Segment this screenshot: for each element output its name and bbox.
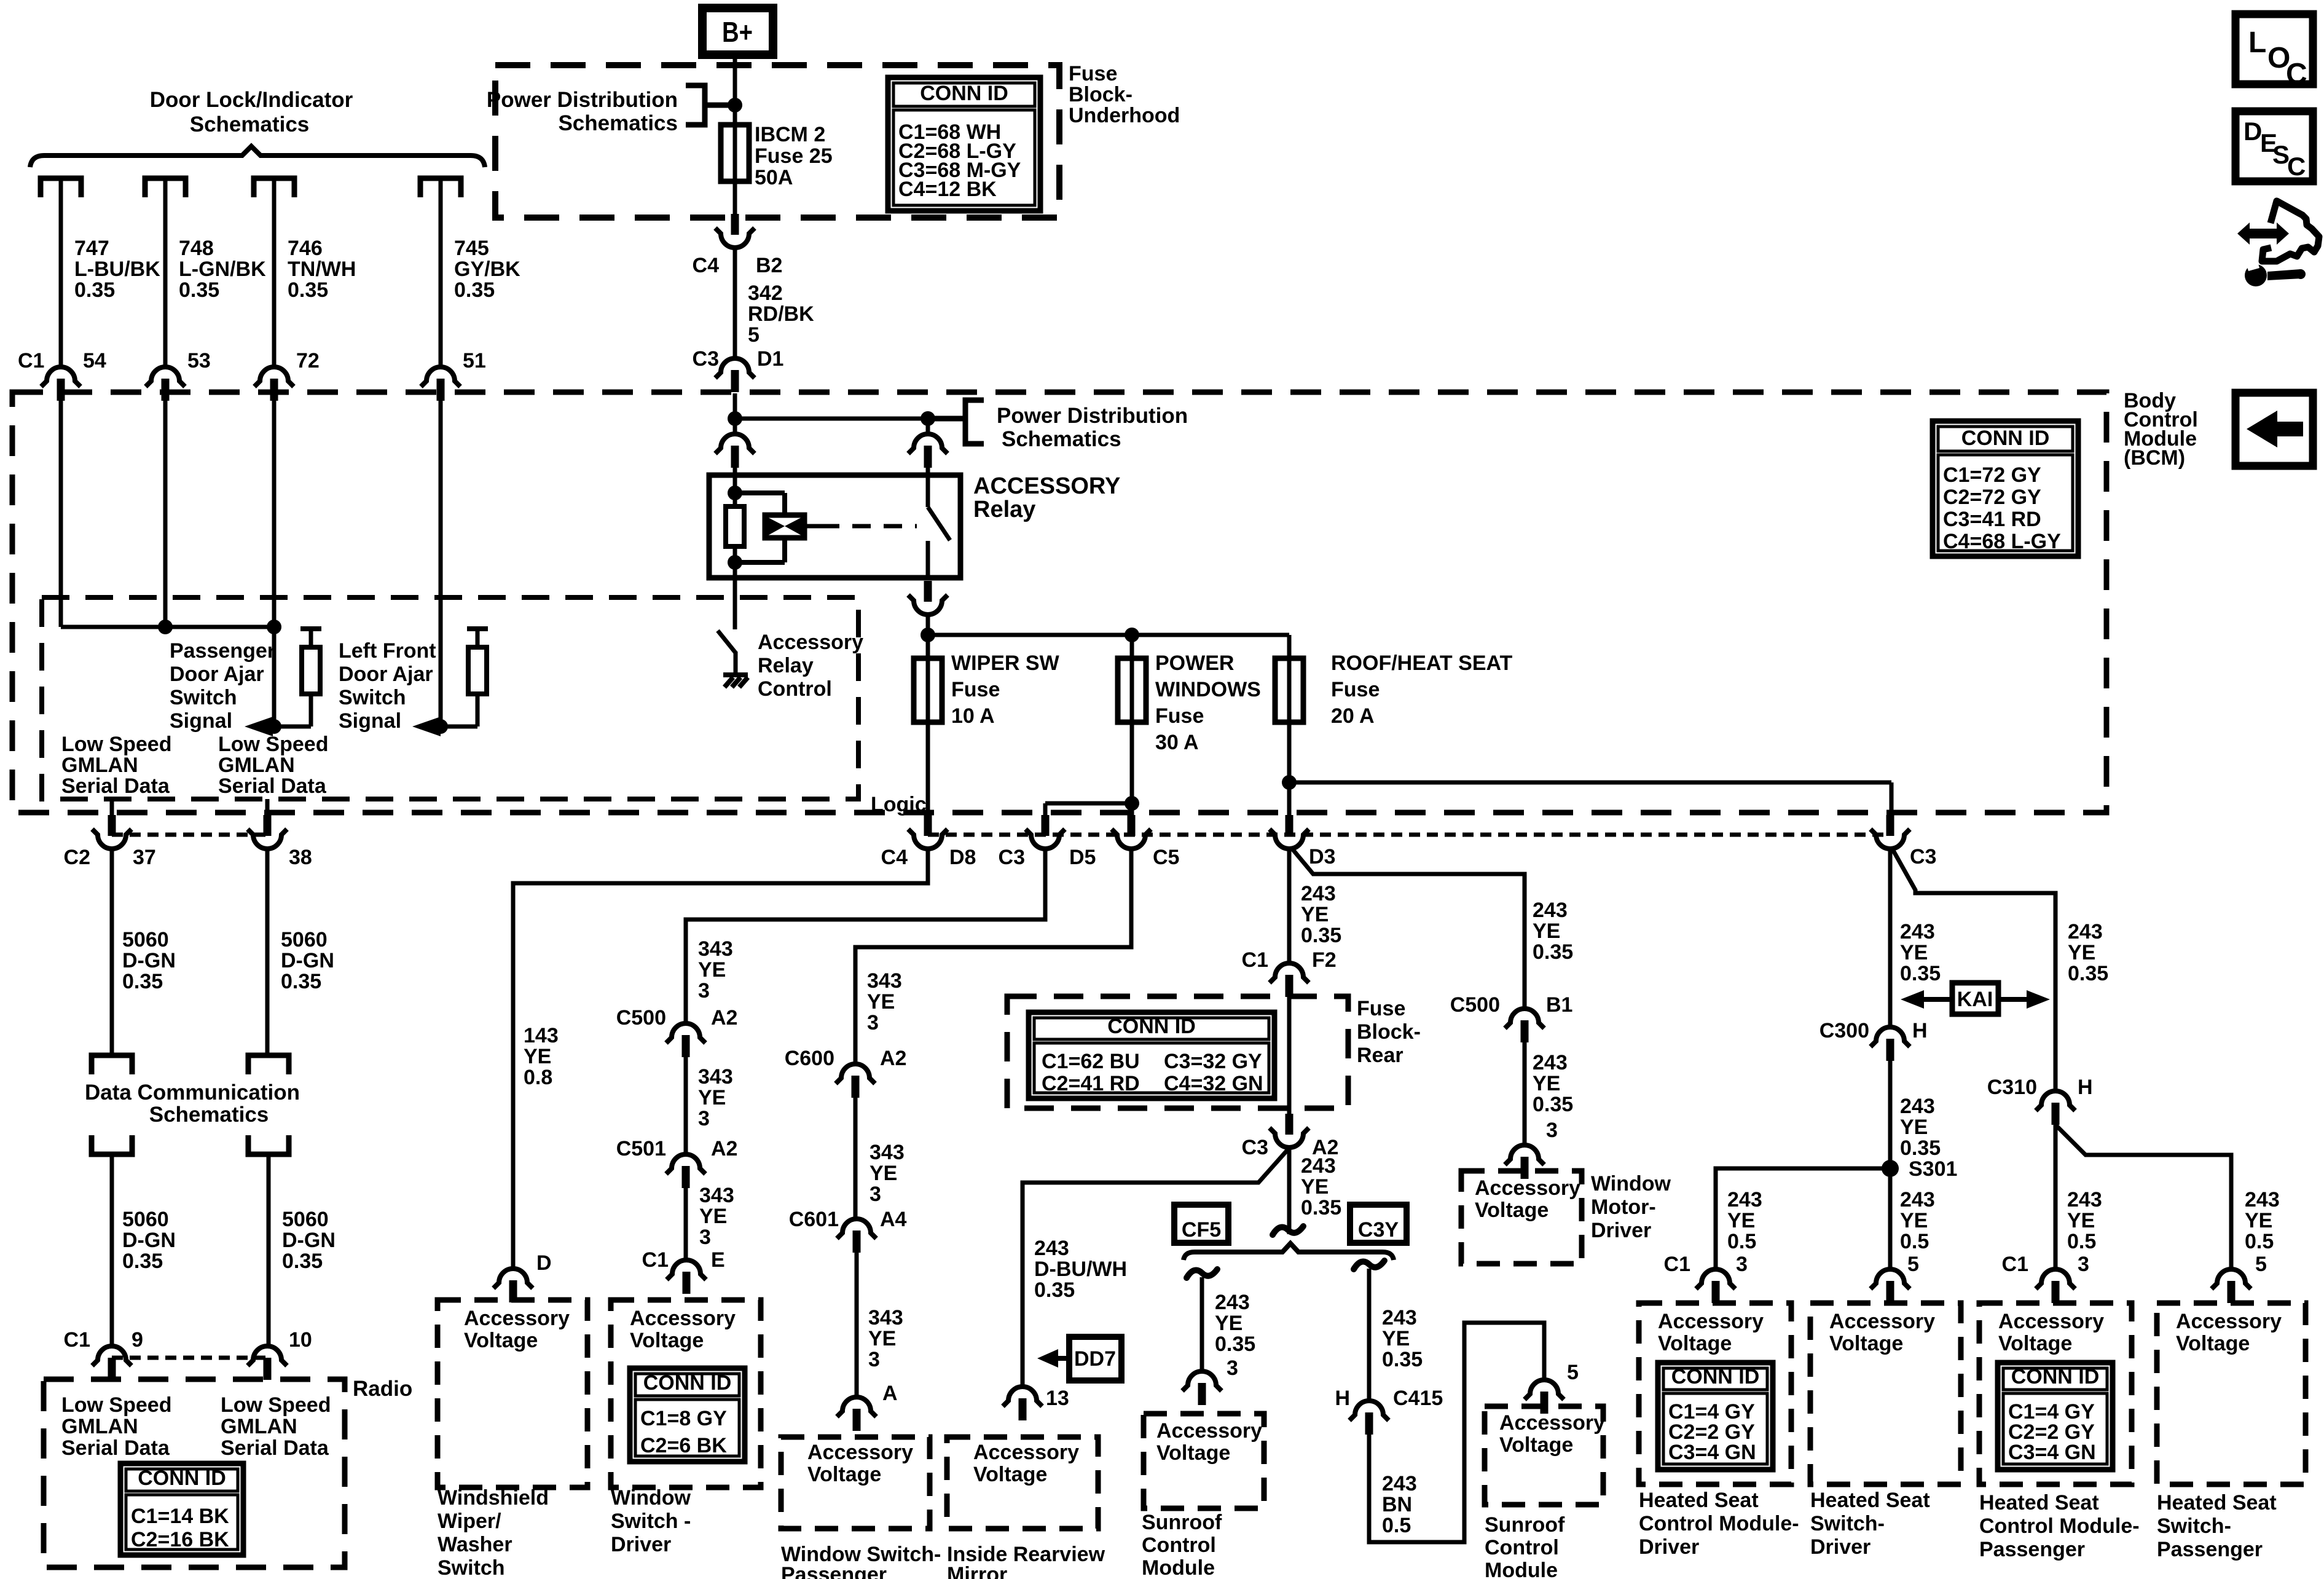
svg-text:C3: C3 — [1910, 845, 1936, 868]
svg-text:5: 5 — [748, 323, 760, 347]
svg-text:Low Speed: Low Speed — [61, 1393, 171, 1417]
relay switch supply connector — [908, 434, 948, 468]
svg-text:C5: C5 — [1153, 846, 1179, 869]
svg-text:Switch-: Switch- — [2157, 1514, 2231, 1538]
svg-text:YE: YE — [1900, 1116, 1928, 1139]
connector C3 A2 (exit fuse block rear) — [1270, 1114, 1309, 1148]
svg-text:C501: C501 — [616, 1137, 666, 1160]
svg-text:A2: A2 — [711, 1006, 737, 1030]
wire roof fuse bus to C3 — [1282, 775, 1297, 790]
svg-text:Washer: Washer — [438, 1533, 512, 1556]
svg-text:10: 10 — [289, 1328, 312, 1352]
svg-text:Heated Seat: Heated Seat — [1810, 1489, 1930, 1512]
svg-text:3: 3 — [1546, 1119, 1558, 1142]
BCM pin C5 exit — [1112, 815, 1151, 849]
CONN ID table BCM — [1933, 421, 2078, 556]
splice S301 — [1882, 1160, 1899, 1177]
wire 747 L-BU/BK — [59, 181, 63, 366]
svg-text:D-GN: D-GN — [122, 1229, 176, 1252]
svg-text:Power Distribution: Power Distribution — [997, 404, 1188, 428]
off-page pad 37 (data comm) bottom — [92, 1135, 132, 1154]
svg-text:Control: Control — [1142, 1534, 1216, 1557]
svg-text:WIPER SW: WIPER SW — [951, 652, 1060, 675]
svg-text:Motor-: Motor- — [1591, 1195, 1656, 1219]
svg-text:C3Y: C3Y — [1358, 1218, 1399, 1242]
svg-text:3: 3 — [1736, 1253, 1748, 1276]
BCM connector C1 pin 53 — [146, 367, 185, 401]
svg-text:53: 53 — [187, 349, 211, 372]
svg-text:0.35: 0.35 — [1900, 1136, 1941, 1160]
svg-text:Control: Control — [758, 677, 832, 701]
svg-text:Door Ajar: Door Ajar — [339, 663, 433, 686]
svg-text:D5: D5 — [1069, 846, 1096, 869]
svg-text:A: A — [882, 1382, 898, 1405]
battery B+ symbol — [702, 8, 773, 55]
svg-text:C600: C600 — [785, 1047, 834, 1070]
svg-text:10 A: 10 A — [951, 704, 995, 728]
BCM pin 37 exit — [110, 799, 114, 817]
wire C4 pin D1 into BCM — [733, 393, 737, 419]
icon arrow-wrench (schematic reference) — [2237, 201, 2319, 286]
connector C1 3 heated seat control module passenger — [2036, 1269, 2075, 1303]
svg-text:Sunroof: Sunroof — [1142, 1511, 1222, 1534]
svg-text:Voltage: Voltage — [807, 1463, 881, 1486]
wire through fuse block rear — [1287, 997, 1292, 1114]
door-lock pad 1 — [41, 178, 81, 197]
svg-text:CONN ID: CONN ID — [1961, 427, 2050, 450]
svg-text:YE: YE — [867, 990, 895, 1014]
svg-text:WINDOWS: WINDOWS — [1155, 678, 1261, 701]
wire 745 GY/BK — [439, 181, 443, 366]
svg-text:A2: A2 — [711, 1137, 737, 1160]
svg-text:Heated Seat: Heated Seat — [1979, 1491, 2099, 1514]
BCM connector C1 pin 72 — [254, 367, 294, 401]
ROOF/HEAT SEAT Fuse 20 A — [1287, 635, 1292, 661]
bracket Power Distribution Schematics (BCM) — [928, 416, 965, 422]
svg-text:Low Speed: Low Speed — [61, 733, 171, 756]
svg-text:Fuse: Fuse — [1357, 997, 1405, 1020]
BCM connector C1 pin 54 — [41, 367, 80, 401]
passenger door ajar signal arrow — [274, 725, 311, 729]
svg-text:D3: D3 — [1309, 845, 1335, 868]
svg-text:GMLAN: GMLAN — [221, 1415, 297, 1438]
svg-text:GMLAN: GMLAN — [61, 754, 138, 777]
svg-text:38: 38 — [289, 846, 312, 869]
icon back-arrow box — [2236, 393, 2313, 466]
svg-text:C3=4 GN: C3=4 GN — [1668, 1441, 1756, 1464]
svg-text:5060: 5060 — [282, 1208, 329, 1231]
wire B+ to fuse — [733, 55, 737, 127]
svg-text:C3: C3 — [693, 347, 719, 371]
brace door-lock group — [30, 146, 485, 167]
svg-text:343: 343 — [868, 1306, 903, 1329]
BCM pin 38 exit — [265, 799, 270, 817]
svg-text:3: 3 — [699, 1226, 711, 1249]
wiper fuse feed bus — [921, 628, 935, 642]
svg-text:YE: YE — [1900, 1209, 1928, 1232]
svg-text:DD7: DD7 — [1074, 1347, 1116, 1371]
svg-text:243: 243 — [1727, 1188, 1762, 1211]
svg-text:243: 243 — [1900, 1188, 1935, 1211]
svg-text:C1: C1 — [642, 1248, 669, 1272]
svg-text:747: 747 — [74, 237, 109, 260]
svg-text:D-GN: D-GN — [122, 949, 176, 972]
svg-text:YE: YE — [1727, 1209, 1755, 1232]
svg-text:0.35: 0.35 — [122, 1250, 163, 1273]
svg-text:343: 343 — [698, 937, 733, 961]
svg-text:Switch: Switch — [170, 686, 237, 709]
svg-text:Accessory: Accessory — [1475, 1176, 1580, 1200]
svg-text:Module: Module — [1142, 1556, 1215, 1579]
svg-text:H: H — [2078, 1076, 2093, 1099]
CONN ID table Fuse Block-Rear — [1029, 1012, 1274, 1098]
relay coil supply connector — [715, 434, 755, 468]
svg-text:Signal: Signal — [339, 709, 401, 733]
svg-text:Door Lock/Indicator: Door Lock/Indicator — [150, 88, 353, 112]
wire 38 to radio — [265, 850, 270, 1055]
svg-text:C2=6 BK: C2=6 BK — [640, 1434, 727, 1457]
svg-text:0.5: 0.5 — [1727, 1230, 1756, 1253]
svg-text:A4: A4 — [880, 1208, 907, 1231]
off-page pad 38 (data comm) bottom — [248, 1135, 289, 1154]
junction node at B+ branch — [728, 98, 742, 112]
svg-text:H: H — [1335, 1387, 1350, 1410]
svg-text:L-BU/BK: L-BU/BK — [74, 258, 160, 281]
svg-text:Driver: Driver — [1591, 1219, 1651, 1242]
BCM pin C3 exit (right) — [1871, 815, 1910, 849]
svg-text:Window: Window — [611, 1486, 691, 1510]
svg-text:Switch: Switch — [438, 1556, 505, 1579]
svg-text:Schematics: Schematics — [558, 111, 678, 135]
wire pin 53 drop — [163, 401, 168, 627]
svg-text:YE: YE — [1900, 941, 1928, 964]
wire 243 YE 0.5 to heated seat switch driver — [1888, 1168, 1893, 1268]
BCM connector C1 pin 51 — [421, 367, 460, 401]
wire 243 YE 0.35 (below A2) — [1287, 1149, 1292, 1234]
left front door ajar signal arrow — [441, 725, 477, 729]
svg-text:Fuse: Fuse — [1155, 704, 1204, 728]
svg-text:Accessory: Accessory — [1156, 1419, 1262, 1443]
wire 143 YE 0.8 — [513, 850, 928, 1268]
Accessory Voltage box (window motor driver) — [1461, 1171, 1582, 1264]
wire to relay switch — [926, 419, 930, 433]
svg-text:C415: C415 — [1393, 1387, 1443, 1410]
svg-text:3: 3 — [867, 1011, 879, 1034]
wire horizontal door-ajar bus — [59, 401, 63, 627]
svg-text:Accessory: Accessory — [1829, 1310, 1935, 1333]
relay switch contact — [926, 475, 930, 507]
svg-text:Driver: Driver — [1639, 1535, 1699, 1559]
sunroof branch left squiggle — [1187, 1269, 1217, 1278]
svg-text:YE: YE — [1382, 1327, 1410, 1350]
svg-text:50A: 50A — [755, 166, 793, 189]
resistor left front door ajar — [467, 626, 488, 631]
CONN ID table heated seat control module driver — [1658, 1363, 1773, 1470]
door-lock pad 2 — [145, 178, 186, 197]
svg-text:GY/BK: GY/BK — [454, 258, 520, 281]
svg-text:D1: D1 — [757, 347, 783, 371]
connector 5 heated seat switch driver — [1871, 1269, 1910, 1303]
svg-text:Left Front: Left Front — [339, 639, 436, 663]
relay output connector — [908, 581, 948, 615]
svg-text:C310: C310 — [1987, 1076, 2037, 1099]
branch C3 to C310 — [1893, 849, 2055, 1090]
wire 748 L-GN/BK — [163, 181, 168, 366]
connector C4/B2 (exit underhood fuse block) — [715, 214, 755, 248]
svg-text:243: 243 — [1533, 1051, 1568, 1074]
dotted row radio pins — [112, 1356, 267, 1360]
svg-text:0.5: 0.5 — [2067, 1230, 2096, 1253]
Accessory Voltage box (window switch driver) — [611, 1300, 761, 1487]
wire 243 BN 0.5 to sunroof 2 — [1369, 1323, 1544, 1542]
svg-text:5060: 5060 — [122, 928, 169, 951]
wire pin 72 drop — [272, 401, 277, 726]
svg-text:Serial Data: Serial Data — [61, 1436, 170, 1460]
resistor passenger door ajar — [300, 626, 321, 631]
Accessory Voltage box (inside rearview mirror) — [947, 1437, 1098, 1529]
svg-text:GMLAN: GMLAN — [61, 1415, 138, 1438]
svg-text:243: 243 — [1301, 882, 1336, 905]
svg-text:Accessory: Accessory — [1658, 1310, 1764, 1333]
svg-text:C1=14 BK: C1=14 BK — [131, 1505, 229, 1528]
Accessory Voltage box (sunroof 2) — [1485, 1406, 1603, 1505]
KAI reference box with arrows — [1952, 983, 1998, 1014]
svg-text:C1: C1 — [18, 349, 44, 372]
label box C3Y — [1350, 1205, 1407, 1243]
svg-text:C1: C1 — [64, 1328, 90, 1352]
svg-text:CONN ID: CONN ID — [2011, 1365, 2100, 1388]
branch C310 to heated seat switch passenger — [2055, 1125, 2231, 1268]
Accessory Voltage box (heated seat control module driver) — [1639, 1303, 1791, 1484]
Fuse Block-Underhood dashed box — [495, 65, 1059, 218]
accessory relay control switch — [733, 578, 737, 629]
svg-text:3: 3 — [1227, 1357, 1238, 1380]
svg-text:C300: C300 — [1820, 1019, 1869, 1042]
svg-text:0.5: 0.5 — [2245, 1230, 2274, 1253]
svg-text:Passenger: Passenger — [781, 1563, 887, 1579]
svg-text:C2=41 RD: C2=41 RD — [1042, 1072, 1140, 1095]
svg-text:CONN ID: CONN ID — [643, 1371, 732, 1395]
svg-text:5060: 5060 — [122, 1208, 169, 1231]
svg-text:YE: YE — [2067, 1209, 2095, 1232]
svg-text:D: D — [2244, 117, 2262, 146]
svg-text:Door Ajar: Door Ajar — [170, 663, 264, 686]
svg-text:0.35: 0.35 — [1301, 924, 1341, 947]
connector 3 window motor driver — [1505, 1145, 1544, 1179]
connector 5 heated seat switch passenger — [2212, 1269, 2251, 1303]
svg-text:Switch -: Switch - — [611, 1510, 691, 1533]
arrow DD7 — [1037, 1349, 1058, 1368]
svg-text:Passenger: Passenger — [170, 639, 275, 663]
svg-text:Accessory: Accessory — [630, 1307, 736, 1330]
svg-text:Rear: Rear — [1357, 1044, 1403, 1067]
svg-text:A2: A2 — [880, 1047, 906, 1070]
svg-text:243: 243 — [2245, 1188, 2280, 1211]
svg-text:243: 243 — [2068, 920, 2103, 943]
CONN ID table Radio — [120, 1463, 243, 1555]
svg-text:YE: YE — [2068, 941, 2095, 964]
svg-text:343: 343 — [698, 1065, 733, 1089]
svg-text:POWER: POWER — [1155, 652, 1234, 675]
svg-text:Accessory: Accessory — [1499, 1411, 1605, 1435]
svg-text:51: 51 — [463, 349, 486, 372]
svg-text:C3: C3 — [999, 846, 1025, 869]
svg-text:Schematics: Schematics — [1002, 427, 1121, 451]
svg-text:Fuse: Fuse — [1331, 678, 1380, 701]
svg-text:0.35: 0.35 — [1382, 1348, 1423, 1371]
BCM pin D3 exit — [1270, 815, 1309, 849]
svg-text:Voltage: Voltage — [2176, 1332, 2250, 1355]
svg-text:243: 243 — [1382, 1306, 1417, 1329]
svg-text:H: H — [1912, 1019, 1928, 1042]
svg-text:C2=16 BK: C2=16 BK — [131, 1528, 229, 1551]
svg-text:D-GN: D-GN — [282, 1229, 336, 1252]
svg-text:YE: YE — [698, 1086, 726, 1109]
svg-text:5060: 5060 — [281, 928, 328, 951]
svg-text:CF5: CF5 — [1182, 1218, 1221, 1242]
svg-text:343: 343 — [870, 1141, 905, 1164]
fuse IBCM 2 Fuse 25 50A — [721, 125, 749, 181]
Accessory Voltage box (windshield wiper) — [438, 1300, 587, 1487]
svg-text:YE: YE — [1215, 1312, 1242, 1335]
svg-text:Relay: Relay — [973, 497, 1035, 522]
svg-text:Accessory: Accessory — [973, 1441, 1079, 1464]
svg-text:C4=68 L-GY: C4=68 L-GY — [1943, 530, 2061, 553]
svg-text:F2: F2 — [1312, 948, 1337, 972]
svg-text:Module: Module — [1485, 1559, 1558, 1579]
svg-text:YE: YE — [699, 1205, 727, 1228]
wire 243 YE 0.5 passenger module — [2054, 1125, 2058, 1268]
Fuse Block-Rear dashed box — [1007, 996, 1348, 1108]
svg-text:343: 343 — [867, 969, 902, 993]
svg-text:Data Communication: Data Communication — [85, 1081, 300, 1105]
branch to inside rearview mirror wire — [1023, 1149, 1288, 1385]
svg-text:C: C — [2286, 58, 2307, 90]
svg-text:Accessory: Accessory — [464, 1307, 570, 1330]
POWER WINDOWS Fuse 30 A — [1130, 635, 1134, 661]
svg-text:C1: C1 — [1242, 948, 1268, 972]
svg-text:0.35: 0.35 — [122, 970, 163, 993]
svg-text:CONN ID: CONN ID — [1671, 1365, 1760, 1388]
splice squiggle main — [1273, 1226, 1303, 1235]
svg-text:Voltage: Voltage — [1829, 1332, 1903, 1355]
svg-text:C1=8 GY: C1=8 GY — [640, 1407, 727, 1430]
svg-text:0.35: 0.35 — [1533, 1093, 1573, 1116]
svg-text:Voltage: Voltage — [1499, 1433, 1573, 1457]
svg-text:Switch: Switch — [339, 686, 406, 709]
svg-text:C1: C1 — [2002, 1253, 2028, 1276]
connector 3 sunroof control module — [1182, 1371, 1222, 1405]
svg-text:TN/WH: TN/WH — [288, 258, 356, 281]
svg-text:13: 13 — [1046, 1387, 1069, 1410]
svg-text:C1: C1 — [1664, 1253, 1690, 1276]
svg-text:Control Module-: Control Module- — [1639, 1512, 1799, 1535]
svg-text:Serial Data: Serial Data — [221, 1436, 329, 1460]
wire 746 TN/WH — [272, 181, 277, 366]
svg-text:CONN ID: CONN ID — [1107, 1015, 1196, 1038]
svg-text:Wiper/: Wiper/ — [438, 1510, 501, 1533]
dotted connector row D8-D5-C5-D3-C3 — [928, 833, 1890, 837]
svg-text:C4=32 GN: C4=32 GN — [1164, 1072, 1263, 1095]
svg-text:YE: YE — [870, 1162, 897, 1185]
svg-text:(BCM): (BCM) — [2124, 446, 2185, 470]
BCM pin D8 exit C4 — [908, 815, 948, 849]
icon LOC box — [2236, 14, 2313, 84]
svg-text:Serial Data: Serial Data — [218, 774, 327, 798]
off-page pad 37 (data comm) top — [92, 1055, 132, 1074]
svg-text:54: 54 — [83, 349, 106, 372]
svg-text:Low Speed: Low Speed — [221, 1393, 331, 1417]
svg-text:Accessory: Accessory — [807, 1441, 913, 1464]
svg-text:GMLAN: GMLAN — [218, 754, 295, 777]
relay coil (bowtie) — [735, 490, 785, 495]
wire pin 51 drop — [439, 401, 443, 726]
off-page pad 38 (data comm) top — [248, 1055, 289, 1074]
svg-text:Voltage: Voltage — [1658, 1332, 1732, 1355]
svg-text:D-BU/WH: D-BU/WH — [1034, 1258, 1127, 1281]
svg-text:YE: YE — [2245, 1209, 2272, 1232]
svg-text:243: 243 — [1382, 1472, 1417, 1495]
wire fuse to C4 — [733, 181, 737, 215]
branch D3 to C500 B1 — [1292, 848, 1525, 1007]
svg-text:745: 745 — [454, 237, 489, 260]
svg-text:CONN ID: CONN ID — [138, 1467, 226, 1490]
svg-text:D8: D8 — [949, 846, 976, 869]
svg-text:5: 5 — [2255, 1253, 2267, 1276]
svg-text:C500: C500 — [616, 1006, 666, 1030]
svg-text:Heated Seat: Heated Seat — [2157, 1491, 2277, 1514]
Accessory Voltage box (sunroof 1) — [1144, 1414, 1264, 1508]
svg-text:L: L — [2248, 26, 2266, 59]
svg-text:Schematics: Schematics — [149, 1103, 269, 1127]
wire 243 YE 0.35 (D3 to F2) — [1287, 850, 1292, 962]
Accessory Voltage box (heated seat switch passenger) — [2157, 1303, 2306, 1484]
svg-text:0.8: 0.8 — [524, 1066, 552, 1089]
wire 243 YE 0.5 to heated seat control module driver — [1716, 1168, 1890, 1268]
svg-text:9: 9 — [132, 1328, 143, 1352]
ground accessory relay control — [723, 672, 748, 677]
svg-text:YE: YE — [698, 958, 726, 982]
svg-text:Fuse: Fuse — [951, 678, 1000, 701]
svg-text:Underhood: Underhood — [1069, 104, 1180, 127]
svg-text:0.35: 0.35 — [179, 278, 219, 302]
svg-text:C4=12 BK: C4=12 BK — [898, 178, 997, 201]
svg-text:143: 143 — [524, 1024, 559, 1047]
wire power windows split D5/C5 — [1045, 801, 1132, 806]
svg-text:C3: C3 — [1242, 1136, 1268, 1159]
svg-text:Voltage: Voltage — [464, 1329, 538, 1352]
inner BCM logic dashed box — [42, 597, 858, 799]
wire 342 RD/BK 5 — [733, 249, 737, 357]
svg-text:Fuse 25: Fuse 25 — [755, 144, 833, 168]
svg-text:KAI: KAI — [1957, 988, 1993, 1011]
svg-text:C4: C4 — [693, 254, 720, 277]
svg-text:Passenger: Passenger — [2157, 1538, 2263, 1561]
svg-text:C1=62 BU: C1=62 BU — [1042, 1050, 1140, 1073]
svg-text:Low Speed: Low Speed — [218, 733, 328, 756]
Accessory Voltage box (heated seat control module passenger) — [1979, 1303, 2132, 1484]
svg-text:Mirror: Mirror — [947, 1563, 1007, 1579]
svg-text:ROOF/HEAT SEAT: ROOF/HEAT SEAT — [1331, 652, 1513, 675]
junction node power distribution branch — [728, 411, 742, 426]
CONN ID table Fuse Block-Underhood — [888, 77, 1040, 211]
svg-text:YE: YE — [868, 1327, 896, 1350]
svg-text:5: 5 — [1907, 1253, 1919, 1276]
svg-text:IBCM 2: IBCM 2 — [755, 123, 825, 146]
svg-text:3: 3 — [868, 1348, 880, 1371]
svg-text:Accessory: Accessory — [1998, 1310, 2104, 1333]
svg-text:C500: C500 — [1450, 993, 1500, 1017]
